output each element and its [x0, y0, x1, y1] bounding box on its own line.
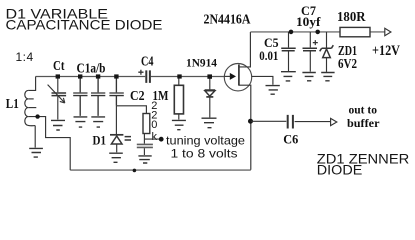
svg-text:1 to 8 volts: 1 to 8 volts: [171, 146, 238, 160]
coil crossover stub 2: [28, 107, 36, 109]
wire source node to C6: [251, 120, 286, 122]
ground under L1: [29, 148, 43, 157]
node 1N914 rail dot: [207, 74, 212, 78]
transistor Q1 2N4416A: [224, 63, 251, 90]
svg-text:C6: C6: [283, 132, 298, 147]
node source junction dot: [248, 119, 253, 124]
capacitor C6: [288, 115, 293, 129]
ground under 1M: [172, 120, 186, 129]
svg-text:buffer: buffer: [347, 118, 380, 130]
channel bar of Q1: [238, 65, 240, 86]
node C1a rail dot: [78, 74, 82, 78]
capacitor C7: [309, 32, 311, 48]
node tap junction dot: [35, 114, 39, 118]
wire C2 bottom node to 220k: [116, 106, 146, 114]
svg-text:2N4416A: 2N4416A: [204, 13, 252, 28]
svg-text:L1: L1: [6, 97, 19, 112]
coil crossover stub 1: [28, 98, 34, 100]
wire bottom rail: [70, 169, 251, 171]
svg-text:+12V: +12V: [372, 43, 400, 59]
ground under C1a: [74, 117, 88, 127]
svg-text:1:4: 1:4: [16, 50, 34, 64]
varactor D1 capacitor bars: [125, 137, 131, 140]
wire C6 to output arrow: [295, 121, 331, 123]
arrow +12V supply: [385, 28, 391, 35]
ground under ZD1: [321, 73, 334, 81]
gate arrow of Q1: [230, 73, 236, 80]
svg-text:10yf: 10yf: [296, 14, 321, 29]
svg-text:6V2: 6V2: [338, 56, 357, 71]
ground under Ct: [51, 120, 65, 130]
node Ct rail dot: [56, 74, 60, 78]
node C2 rail dot: [114, 74, 118, 78]
svg-text:out to: out to: [349, 105, 378, 117]
diode 1N914: [209, 77, 211, 90]
ground under 1N914: [202, 118, 217, 128]
svg-text:CAPACITANCE DIODE: CAPACITANCE DIODE: [6, 17, 163, 33]
capacitor C5: [288, 32, 290, 48]
wire D1 to ground: [116, 144, 118, 152]
svg-text:180R: 180R: [337, 10, 366, 25]
capacitor C3 (tuning decoupling): [137, 144, 153, 147]
wire C2 bottom node down to D1: [115, 106, 117, 134]
svg-text:D1: D1: [93, 133, 107, 148]
wire coil bottom to ground: [34, 126, 36, 148]
capacitor C2: [109, 77, 123, 106]
ground under C1b: [91, 117, 105, 127]
node C1b rail dot: [96, 74, 100, 78]
svg-text:C2: C2: [130, 88, 145, 103]
capacitor Ct (variable): [57, 77, 59, 93]
wire top rail left (tank rail): [36, 76, 225, 78]
varactor D1: [110, 134, 123, 136]
wire top supply rail: [250, 31, 384, 33]
svg-text:Ct: Ct: [53, 59, 65, 74]
svg-text:tuning voltage: tuning voltage: [166, 133, 245, 147]
source lead of Q1: [239, 85, 251, 170]
plus sign of C7: [313, 40, 318, 45]
svg-text:C4: C4: [141, 54, 154, 69]
arrow output: [331, 118, 337, 125]
node C7 rail dot: [315, 30, 320, 35]
svg-text:DIODE: DIODE: [317, 162, 363, 177]
inductor L1: [25, 90, 35, 125]
zener ZD1: [326, 32, 328, 48]
plus sign of C4: [138, 70, 143, 75]
resistor 220k: [143, 114, 150, 134]
svg-text:1M: 1M: [153, 88, 169, 103]
resistor 1M: [178, 77, 180, 86]
svg-text:1N914: 1N914: [186, 57, 217, 69]
ground under C5: [281, 72, 296, 81]
resistor 180R: [340, 27, 370, 36]
ground under C3: [138, 156, 151, 163]
svg-text:C1a/b: C1a/b: [77, 60, 106, 75]
node tuning voltage input: [159, 137, 164, 142]
wire rail corner down to coil: [28, 77, 35, 91]
case lead of Q1 to ground: [252, 76, 273, 84]
svg-text:k: k: [152, 131, 158, 143]
ground on case lead: [266, 86, 280, 95]
node on bottom rail: [133, 169, 137, 173]
drain lead of Q1: [239, 32, 251, 67]
ground under C7: [302, 73, 315, 81]
wire tap stub of L1: [28, 117, 70, 171]
capacitor C1b: [91, 77, 105, 116]
variable arrow of Ct: [48, 85, 65, 103]
node C5 rail dot: [289, 30, 294, 35]
node 1M rail dot: [177, 74, 181, 78]
wire 220k bottom to tuning node: [144, 134, 159, 144]
ground under D1: [109, 153, 123, 162]
capacitor C1a: [73, 77, 87, 116]
svg-text:0.01: 0.01: [259, 48, 278, 63]
svg-text:0: 0: [151, 119, 157, 131]
capacitor C4: [146, 70, 150, 83]
